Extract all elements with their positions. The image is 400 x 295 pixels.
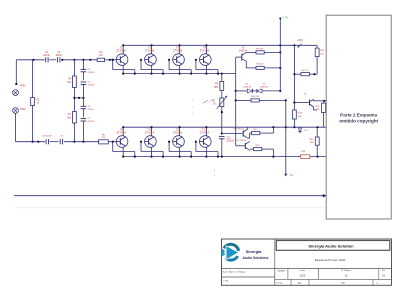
svg-text:CTVE: CTVE: [223, 281, 229, 283]
power flag +50V: [297, 39, 303, 48]
svg-text:C4: C4: [88, 69, 92, 71]
svg-text:Autor: Migel Luis Hidalgo: Autor: Migel Luis Hidalgo: [223, 270, 246, 273]
wire top-left input bus: [16, 59, 116, 61]
svg-text:Audio Solutions: Audio Solutions: [243, 256, 269, 260]
svg-text:R17: R17: [253, 129, 258, 131]
svg-text:ZTX108: ZTX108: [173, 49, 183, 53]
svg-text:R3: R3: [99, 52, 103, 54]
svg-text:22/50V: 22/50V: [88, 121, 95, 123]
svg-text:R8: R8: [102, 134, 106, 136]
svg-text:C7: C7: [88, 118, 92, 120]
svg-text:Escala: Escala: [277, 283, 284, 285]
svg-text:22/50V: 22/50V: [88, 72, 95, 74]
transistor T1: [116, 44, 128, 74]
svg-text:1k: 1k: [37, 103, 40, 105]
resistor R17: [248, 127, 274, 138]
wire faint guide line: [15, 207, 325, 209]
wire R10 820 row: [235, 96, 287, 102]
wire bottom return bus: [14, 194, 326, 197]
svg-text:100: 100: [102, 137, 106, 139]
capacitor C6 220nF: [81, 98, 95, 118]
svg-text:R4: R4: [68, 79, 72, 81]
svg-text:1k5: 1k5: [99, 55, 103, 57]
svg-text:R14: R14: [315, 106, 320, 108]
wire base chain top row: [112, 59, 219, 75]
svg-text:Esquema Premio 1040: Esquema Premio 1040: [315, 258, 346, 262]
transistor T4: [200, 44, 212, 74]
transistor T3: [173, 44, 185, 74]
svg-text:R1: R1: [37, 100, 41, 102]
svg-text:R6 4k7: R6 4k7: [257, 64, 265, 66]
title block frame: [222, 239, 392, 285]
svg-text:ZTX214: ZTX214: [200, 130, 210, 134]
power +70 rail: [279, 16, 288, 91]
svg-text:TAMAÑO: TAMAÑO: [277, 270, 286, 273]
transistor T2: [145, 44, 157, 74]
svg-text:C5: C5: [88, 81, 92, 83]
ellipsis dots column: [191, 100, 194, 114]
svg-text:10k: 10k: [320, 54, 324, 56]
svg-text:R11 1k: R11 1k: [302, 70, 310, 72]
svg-text:1/1: 1/1: [297, 282, 301, 285]
svg-text:680: 680: [214, 87, 219, 89]
wire emitter bus bottom row: [123, 156, 326, 158]
node junctions on lower-left bus: [31, 141, 84, 143]
title cell company: [276, 241, 390, 251]
svg-text:Fecha: Fecha: [300, 270, 306, 272]
wire emitter bus top row: [123, 73, 236, 75]
transistor T10: [145, 126, 157, 158]
power -70 rail: [284, 100, 293, 176]
resistor R9 680: [214, 74, 224, 91]
resistor R15 360 vertical: [310, 127, 320, 156]
svg-text:ZTX214: ZTX214: [173, 130, 183, 134]
svg-text:R12: R12: [298, 113, 303, 115]
transistor T8: [235, 91, 250, 150]
svg-text:100nF: 100nF: [43, 55, 50, 57]
wire collector bus bottom row: [123, 126, 326, 128]
svg-text:R19: R19: [301, 151, 306, 153]
svg-text:P003: P003: [20, 108, 26, 111]
transistor T9: [116, 126, 128, 158]
wire VR1 to C2 node: [221, 107, 223, 135]
resistor R18: [250, 145, 274, 157]
resistor R4 56k: [67, 60, 76, 98]
capacitor C2 100nF: [43, 52, 50, 62]
logo Sinergia Audio Solutions: [223, 244, 269, 260]
resistor R19 emitter bus: [301, 151, 310, 159]
resistor R13 10k vertical: [315, 45, 325, 74]
diode D2 1N4148: [252, 84, 281, 93]
svg-text:C3: C3: [57, 52, 61, 54]
svg-text:ZTX108: ZTX108: [200, 49, 210, 53]
svg-text:omitido copyright: omitido copyright: [339, 119, 378, 124]
diode D3: [298, 128, 308, 133]
wire left drop to connector: [15, 60, 17, 85]
svg-text:100nF: 100nF: [55, 55, 62, 57]
svg-text:220nF: 220nF: [88, 109, 95, 111]
capacitor C7 22/50V: [81, 118, 95, 142]
cell Escala: [277, 282, 302, 285]
svg-text:Parte 2 Esquema: Parte 2 Esquema: [340, 112, 377, 117]
svg-text:D2: D2: [263, 84, 267, 86]
svg-text:Sinergia Audio Solution: Sinergia Audio Solution: [308, 243, 354, 248]
svg-text:R10 820: R10 820: [251, 96, 260, 98]
svg-text:1N4148: 1N4148: [243, 87, 251, 89]
capacitor C9 100nF: [60, 136, 64, 145]
svg-text:+70: +70: [283, 16, 288, 20]
wire mid junction row: [73, 97, 84, 99]
block Parte 2 omitted: [326, 15, 391, 219]
svg-text:R13: R13: [320, 50, 325, 52]
svg-text:D1: D1: [246, 84, 250, 86]
resistor R5 4k7: [246, 48, 281, 54]
ellipsis dots lower: [213, 170, 216, 176]
svg-text:VR1: VR1: [211, 100, 216, 102]
svg-text:5k: 5k: [213, 104, 216, 106]
svg-text:5k6: 5k6: [298, 116, 302, 118]
cell Rev: [382, 270, 386, 278]
svg-text:P002: P002: [20, 85, 26, 88]
svg-text:+50V: +50V: [297, 39, 303, 42]
svg-text:R18: R18: [255, 145, 260, 147]
svg-text:R7: R7: [68, 114, 72, 116]
resistor R14 5k6 vertical: [315, 101, 325, 127]
transistor T7: [222, 127, 248, 138]
capacitor C8 100nF: [42, 136, 52, 145]
svg-text:56k: 56k: [67, 82, 72, 84]
capacitor C3 100nF: [55, 52, 62, 62]
transistor T5: [236, 48, 248, 62]
title cell author: [223, 270, 246, 273]
diode D1 1N4148: [236, 84, 253, 93]
svg-text:2200uF: 2200uF: [226, 141, 234, 143]
svg-text:C10: C10: [226, 137, 231, 139]
svg-text:C9: C9: [60, 136, 64, 138]
wire base chain bottom row: [112, 141, 219, 158]
svg-text:D3: D3: [305, 130, 309, 132]
transistor T11: [173, 126, 185, 158]
svg-text:1N4148: 1N4148: [260, 87, 268, 89]
svg-text:22/50V: 22/50V: [88, 84, 95, 86]
svg-text:T6: T6: [304, 94, 307, 96]
svg-text:T5: T5: [242, 48, 245, 50]
resistor R3: [97, 52, 104, 61]
node junctions on input bus: [32, 59, 113, 61]
svg-text:C2: C2: [45, 52, 49, 54]
capacitor C10 2200uF: [219, 136, 235, 157]
wire T5 base drop: [235, 57, 237, 92]
svg-text:56k: 56k: [67, 117, 72, 119]
title cell project: [315, 258, 346, 262]
svg-text:Rev: Rev: [382, 270, 386, 272]
svg-text:Sinergia: Sinergia: [246, 249, 263, 254]
cell TAMANO: [277, 270, 286, 273]
resistor R12 5k6: [293, 110, 303, 119]
connector P002: [13, 85, 27, 96]
svg-text:ZTX214: ZTX214: [145, 130, 155, 134]
resistor R7 56k: [67, 98, 76, 142]
capacitor C5 22/50V: [81, 81, 95, 98]
faint mark near T4: [203, 100, 210, 103]
title grid lines: [288, 269, 379, 286]
svg-text:5k6: 5k6: [316, 109, 320, 111]
cell Hoja: [341, 282, 378, 285]
svg-text:Nº Páginas: Nº Páginas: [341, 269, 351, 272]
resistor R1 column: [31, 60, 41, 142]
svg-text:2013: 2013: [300, 275, 306, 278]
svg-text:ZTX108: ZTX108: [116, 49, 126, 53]
svg-text:T7 ZTX214: T7 ZTX214: [233, 129, 245, 131]
capacitor C4 22/50V: [81, 60, 95, 81]
resistor R6 4k7: [246, 61, 281, 69]
resistor R11 1k: [294, 70, 317, 76]
cell Num Paginas: [341, 269, 351, 278]
wire connector to lower bus: [16, 113, 46, 141]
wire lower-left bus: [50, 141, 117, 143]
title cell CTVE: [223, 281, 229, 283]
trimmer VR1: [211, 91, 227, 109]
svg-text:C6: C6: [88, 106, 92, 108]
connector P003: [13, 108, 27, 114]
svg-text:C8 100nF: C8 100nF: [42, 136, 52, 138]
svg-text:ZTX108: ZTX108: [145, 49, 155, 53]
svg-text:R15: R15: [310, 139, 315, 141]
svg-text:T8 ZTX108: T8 ZTX108: [235, 140, 247, 142]
wire vertical x294: [293, 44, 295, 127]
svg-text:-70: -70: [289, 173, 294, 177]
svg-text:R9: R9: [215, 84, 219, 86]
svg-text:R5 4k7: R5 4k7: [257, 48, 265, 50]
svg-text:360: 360: [310, 142, 314, 144]
transistor T6: [294, 94, 325, 110]
wire collector bus top: [123, 44, 317, 46]
cell Fecha: [300, 270, 306, 278]
resistor R8: [99, 134, 109, 144]
svg-text:ZTX214: ZTX214: [116, 130, 126, 134]
transistor T12: [200, 126, 212, 158]
